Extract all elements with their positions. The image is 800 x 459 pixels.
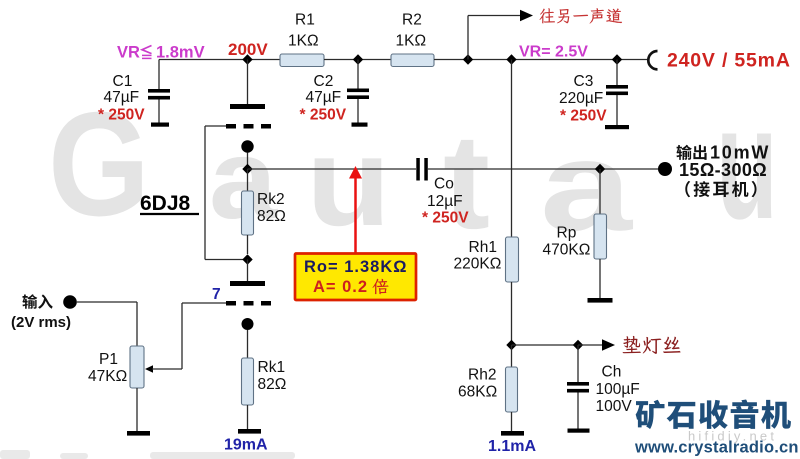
svg-text:VR= 2.5V: VR= 2.5V [519,44,588,61]
svg-text:P1: P1 [99,351,118,368]
resistor Rk1 [242,358,254,405]
node C2 junction [353,54,363,64]
svg-text:C3: C3 [574,73,594,90]
watermark row 2 remnant bottom-left [0,450,295,459]
resistor Rh2 [511,345,513,367]
svg-text:47µF: 47µF [306,89,342,106]
node Ch junction [573,340,583,350]
svg-text:19mA: 19mA [224,437,268,454]
svg-text:(2V rms): (2V rms) [11,314,71,331]
svg-text:1KΩ: 1KΩ [396,33,427,50]
wire P1 to ground [136,388,138,431]
label input (Chinese) [22,294,52,309]
svg-text:47µF: 47µF [104,89,140,106]
wire V1a cathode down [247,153,249,165]
logo crystalradio (Chinese) [636,400,791,430]
capacitor C2 [357,60,359,89]
wire Rh1 to feed node [511,282,513,345]
tube V1a grid [226,124,236,129]
ground C1 [151,123,169,127]
svg-text:82Ω: 82Ω [258,376,287,393]
svg-text:* 250V: * 250V [300,107,347,124]
svg-text:* 250V: * 250V [98,107,145,124]
svg-text:12µF: 12µF [427,193,463,210]
wire input to P1 [77,301,137,303]
svg-text:VR: VR [117,44,140,62]
svg-text:www.crystalradio.cn: www.crystalradio.cn [634,439,799,457]
tube V1a cathode [241,140,253,152]
svg-text:1.1mA: 1.1mA [488,438,536,455]
svg-text:1.8mV: 1.8mV [156,44,205,62]
tube V1a plate [230,104,265,109]
wire V1a grid to Rk2 bottom [205,125,226,127]
svg-text:220KΩ: 220KΩ [454,256,502,273]
label output 10mW (Chinese) [677,145,707,160]
wire grid V1b from wiper [182,302,226,304]
svg-text:1KΩ: 1KΩ [288,33,319,50]
capacitor Co [416,158,420,181]
wire node to lower plate [247,260,249,282]
node to-other-channel junction [463,54,473,64]
ground C3 [605,125,629,129]
wire Rh2 to ground [511,412,513,431]
ground P1 [127,431,150,436]
svg-text:C2: C2 [314,73,334,90]
wire cathode junction to Rk2 [247,169,249,191]
terminal input dot [63,295,77,309]
tube V1b cathode [242,318,254,330]
wire Co to output [428,168,658,170]
svg-text:82Ω: 82Ω [257,208,286,225]
callout yellow box [295,254,416,301]
svg-text:R2: R2 [402,12,422,29]
wire feed node to Ch [512,344,579,346]
svg-text:Ch: Ch [602,364,622,381]
svg-text:* 250V: * 250V [560,108,607,125]
arrow to other channel [520,10,533,22]
tube V1b grid [226,301,236,306]
resistor Rp [599,169,601,214]
svg-text:R1: R1 [295,12,315,29]
wire to other channel [467,16,469,60]
node VR junction [506,54,516,64]
svg-text:47KΩ: 47KΩ [88,368,127,385]
wire Rp to ground [599,259,601,298]
wire to heater arrow [578,344,603,346]
svg-text:A= 0.2: A= 0.2 [313,278,368,296]
svg-text:Rk2: Rk2 [257,191,285,208]
label to-other-channel (Chinese) [540,8,623,23]
svg-text:a: a [540,115,633,258]
svg-text:* 250V: * 250V [422,210,469,227]
node Rp junction [595,164,605,174]
resistor Rh1 [506,237,519,282]
svg-text:Ro= 1.38KΩ: Ro= 1.38KΩ [304,258,407,276]
ground Rp [588,298,613,303]
resistor R1 [280,54,324,67]
wire wiper to grid [152,368,182,370]
ground Rh2 [501,431,524,436]
svg-text:240V / 55mA: 240V / 55mA [667,50,791,72]
svg-text:100V: 100V [596,398,633,415]
svg-text:6DJ8: 6DJ8 [140,192,191,215]
svg-text:Co: Co [434,176,454,193]
potentiometer P1 [130,346,144,388]
svg-text:C1: C1 [113,73,133,90]
label heater feed (Chinese) [623,336,681,354]
svg-text:200V: 200V [228,40,268,59]
capacitor C3 [616,60,618,86]
ground C2 [352,123,368,127]
wire 200V to upper plate [247,60,249,105]
svg-text:Rp: Rp [557,225,577,242]
node C3 junction [612,54,622,64]
svg-text:15Ω-300Ω: 15Ω-300Ω [679,160,767,180]
wire B+ down to Rh1 [511,60,513,238]
wire B+ rail right segment [434,59,649,61]
svg-text:Rh1: Rh1 [469,239,497,256]
wire B+ rail left segment [159,59,280,61]
wire Rk1 to ground [247,405,249,429]
watermark Gautau row 1 [48,73,778,258]
node Rk2 bottom junction [242,254,252,264]
capacitor C1 [158,60,160,90]
svg-text:u: u [306,111,391,252]
node 200V junction [242,54,252,64]
resistor Rk2 [242,191,254,235]
svg-text:220µF: 220µF [559,90,603,107]
wire V1b cathode to Rk1 [247,330,249,358]
node V1a cathode output junction [242,164,252,174]
ground Rk1 [238,429,261,434]
resistor R2 [391,54,434,67]
arrow heater feed [602,339,615,351]
svg-text:Rk1: Rk1 [258,359,286,376]
tube V1b plate [230,281,265,286]
P1 wiper arrow [145,365,153,373]
svg-text:7: 7 [212,286,221,303]
red pointer arrow [354,178,357,254]
ground Ch [568,429,590,433]
terminal B+ input arc [648,51,657,69]
svg-text:100µF: 100µF [596,381,640,398]
capacitor Ch [577,345,579,382]
wire B+ rail between R1 and R2 [324,59,391,61]
wire Rk2 to lower plate node [247,235,249,254]
label headphone (Chinese) [685,181,756,197]
svg-text:470KΩ: 470KΩ [543,242,591,259]
node heater feed junction [506,340,516,350]
svg-text:68KΩ: 68KΩ [458,384,497,401]
wire cathode to Co [248,168,417,170]
terminal output dot [658,162,672,176]
svg-text:Rh2: Rh2 [468,367,496,384]
